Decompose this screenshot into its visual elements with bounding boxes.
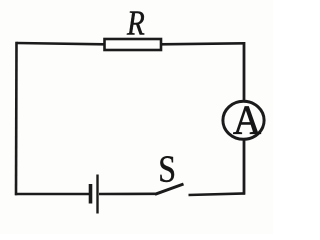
switch S lever xyxy=(155,184,184,194)
svg-text:R: R xyxy=(126,4,145,43)
wire bottom-left segment xyxy=(15,193,89,196)
wire right xyxy=(243,42,246,195)
wire switch-to-corner segment xyxy=(189,193,246,195)
battery positive plate (long thin) xyxy=(96,175,98,214)
svg-text:A: A xyxy=(233,96,261,143)
resistor R xyxy=(105,39,162,50)
wire battery-to-switch segment xyxy=(99,193,156,196)
ammeter U1 circle xyxy=(223,101,264,139)
wire left xyxy=(15,42,18,196)
wire top-right segment xyxy=(161,43,244,44)
svg-text:S: S xyxy=(158,148,176,190)
battery negative plate (short thick) xyxy=(89,184,93,204)
wire top-left segment xyxy=(17,43,105,44)
